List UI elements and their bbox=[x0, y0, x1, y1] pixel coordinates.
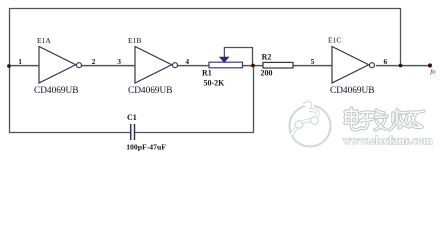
resistor R1 wiper arrow bbox=[220, 57, 229, 62]
svg-text:E1A: E1A bbox=[37, 36, 51, 45]
wire left vertical bbox=[9, 8, 11, 133]
svg-text:R1: R1 bbox=[202, 69, 212, 78]
svg-text:E1B: E1B bbox=[128, 36, 141, 45]
svg-text:3: 3 bbox=[117, 57, 121, 66]
wire E1A out to E1B bbox=[82, 65, 135, 67]
svg-text:6: 6 bbox=[384, 57, 388, 66]
wire E1B out to R1 bbox=[178, 65, 210, 67]
svg-text:E1C: E1C bbox=[328, 35, 341, 44]
svg-text:R2: R2 bbox=[262, 52, 272, 61]
svg-text:CD4069UB: CD4069UB bbox=[330, 86, 374, 96]
watermark logo bbox=[290, 101, 331, 147]
wire input to E1A bbox=[9, 65, 39, 67]
svg-text:1: 1 bbox=[18, 57, 22, 66]
svg-text:5: 5 bbox=[311, 57, 315, 66]
node junction input bbox=[7, 64, 11, 68]
resistor R2 body bbox=[263, 62, 293, 68]
inverter gate E1C bbox=[332, 47, 375, 84]
inverter gate E1A bbox=[39, 47, 82, 84]
svg-text:200: 200 bbox=[261, 69, 273, 78]
capacitor C1 plates bbox=[131, 124, 135, 140]
node fo terminal bbox=[428, 63, 432, 67]
wire C1 branch vertical bbox=[253, 66, 255, 133]
node junction output feedback bbox=[399, 64, 403, 68]
svg-text:fo: fo bbox=[430, 68, 436, 75]
node junction R1 R2 C1 bbox=[251, 64, 255, 68]
svg-text:4: 4 bbox=[185, 57, 189, 66]
wire top feedback bbox=[9, 8, 401, 10]
wire node to fo terminal bbox=[401, 65, 431, 67]
wire E1C out to node bbox=[376, 65, 401, 67]
resistor R1 potentiometer body bbox=[209, 62, 243, 68]
svg-text:CD4069UB: CD4069UB bbox=[34, 86, 78, 96]
svg-text:C1: C1 bbox=[127, 113, 137, 122]
wire bottom right of C1 bbox=[135, 132, 254, 134]
wire right vertical feedback bbox=[400, 8, 402, 66]
wire R1 to junction bbox=[243, 65, 264, 67]
wire bottom left of C1 bbox=[9, 132, 130, 134]
svg-text:50-2K: 50-2K bbox=[204, 79, 226, 88]
inverter gate E1B bbox=[135, 47, 178, 84]
svg-text:www.elecfans.com: www.elecfans.com bbox=[343, 135, 433, 147]
watermark text 电子发烧友 bbox=[345, 108, 424, 130]
svg-text:100pF-47uF: 100pF-47uF bbox=[126, 143, 166, 152]
wire R2 to E1C bbox=[293, 65, 332, 67]
wire R1 wiper loop bbox=[224, 48, 252, 66]
svg-text:CD4069UB: CD4069UB bbox=[128, 86, 172, 96]
svg-text:2: 2 bbox=[92, 57, 96, 66]
